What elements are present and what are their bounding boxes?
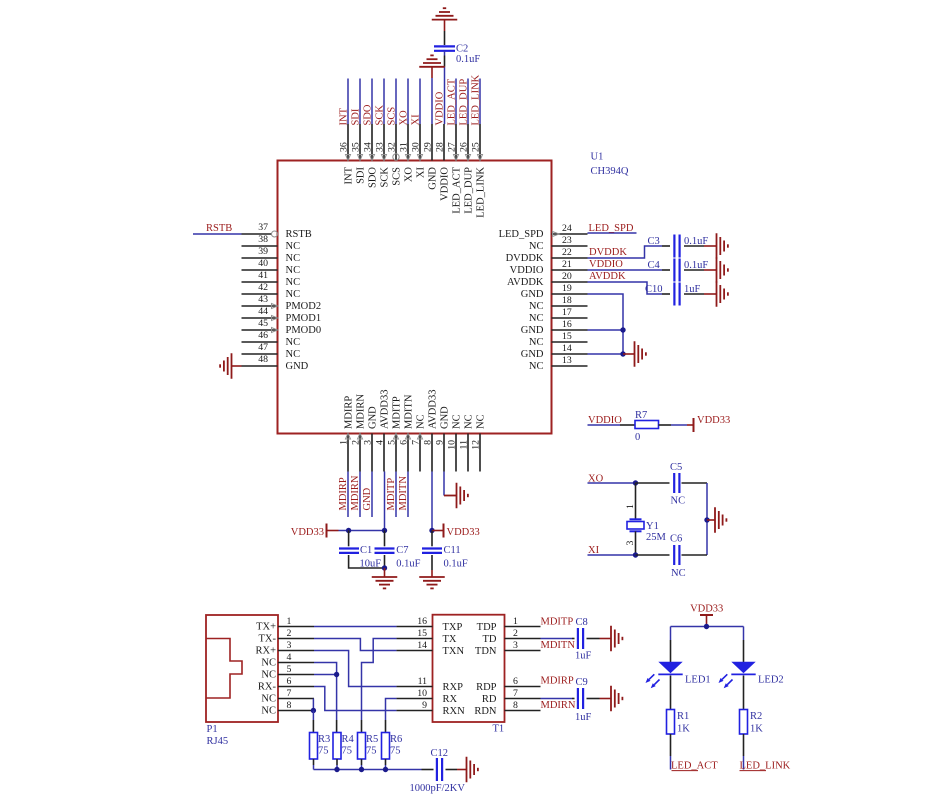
svg-text:SDI: SDI: [351, 108, 362, 125]
wire rail to C12: [422, 769, 434, 771]
U1 pin 39 (NC) left: [242, 257, 278, 259]
svg-text:75: 75: [342, 746, 353, 757]
U1 pin 32 (SCS) top: [395, 124, 397, 161]
wire TX center tap to R5: [362, 639, 397, 721]
svg-text:3: 3: [625, 541, 636, 546]
svg-text:XO: XO: [399, 110, 410, 126]
U1 pin 19 (GND) right: [552, 293, 588, 295]
svg-text:RXN: RXN: [443, 706, 466, 717]
svg-text:17: 17: [562, 307, 572, 318]
U1 pin 38 (NC) left: [242, 245, 278, 247]
wire net SDI (pin 35): [359, 79, 361, 125]
svg-text:31: 31: [399, 142, 410, 152]
wire net XI (pin 30): [419, 79, 421, 125]
P1 pin 2 (TX-): [278, 638, 314, 640]
svg-text:LED_LINK: LED_LINK: [471, 74, 482, 125]
svg-text:INT: INT: [339, 107, 350, 125]
U1 pin 48 (GND) left: [242, 365, 278, 367]
crystal Y1 pin 3 lead: [635, 531, 637, 555]
svg-text:MDIRP: MDIRP: [344, 396, 355, 429]
svg-text:INT: INT: [344, 166, 355, 184]
svg-text:29: 29: [423, 142, 434, 152]
wire net RSTB: [193, 233, 242, 235]
svg-text:NC: NC: [671, 568, 686, 579]
svg-text:27: 27: [447, 142, 458, 152]
wire pin 9 GND to ground: [443, 472, 445, 496]
junction C1/VDD33: [346, 528, 351, 533]
svg-text:C6: C6: [670, 534, 682, 545]
wire C10 to ground: [684, 293, 704, 295]
svg-text:RXP: RXP: [443, 682, 464, 693]
svg-text:DVDDK: DVDDK: [506, 253, 544, 264]
svg-text:NC: NC: [529, 313, 544, 324]
svg-text:1: 1: [625, 504, 636, 509]
power symbol VDD33 (R7): [693, 418, 695, 432]
svg-text:1: 1: [513, 616, 518, 627]
svg-text:R5: R5: [366, 734, 378, 745]
svg-text:7: 7: [411, 440, 422, 445]
svg-text:NC: NC: [529, 361, 544, 372]
U1 pin 42 (NC) left: [242, 293, 278, 295]
ground (pin 9): [457, 483, 468, 509]
svg-text:LED_DUP: LED_DUP: [459, 79, 470, 126]
ground (C8): [611, 626, 622, 652]
svg-text:75: 75: [366, 746, 377, 757]
capacitor C7: [384, 531, 386, 547]
svg-text:46: 46: [258, 330, 268, 341]
junction rail R5: [359, 767, 364, 772]
svg-text:MDIRP: MDIRP: [338, 477, 349, 510]
U1 pin 7 (NC) bottom: [419, 434, 421, 472]
svg-text:RSTB: RSTB: [206, 223, 232, 234]
svg-text:P1: P1: [207, 724, 218, 735]
T1 pin 11 (RXP): [396, 686, 432, 688]
svg-text:GND: GND: [440, 406, 451, 429]
U1 pin 25 (LED_LINK) top: [479, 124, 481, 161]
U1 pin 29 (GND) top: [431, 124, 433, 161]
svg-text:1: 1: [339, 440, 350, 445]
svg-text:NC: NC: [286, 337, 301, 348]
wire R1 down: [670, 734, 672, 756]
T1 pin 14 (TXN): [396, 650, 432, 652]
P1 pin 1 (TX+): [278, 626, 314, 628]
T1 pin 2 (TD): [505, 638, 541, 640]
svg-text:1: 1: [287, 616, 292, 627]
svg-text:U1: U1: [591, 152, 604, 163]
capacitor C11: [431, 531, 433, 547]
svg-text:23: 23: [562, 235, 572, 246]
wire to ground C7: [384, 568, 386, 577]
wire C8 to ground: [587, 638, 600, 640]
svg-text:VDDIO: VDDIO: [589, 259, 623, 270]
svg-text:3: 3: [513, 640, 518, 651]
junction C7/C1 ground: [382, 565, 387, 570]
power symbol VDD33 (right): [443, 524, 445, 538]
svg-text:20: 20: [562, 271, 572, 282]
wire net INT (pin 36): [347, 79, 349, 125]
wire net MDIRN (pin 2): [359, 472, 361, 518]
svg-text:RSTB: RSTB: [286, 229, 312, 240]
svg-text:37: 37: [258, 222, 268, 233]
svg-text:MDIRP: MDIRP: [541, 676, 574, 687]
svg-text:6: 6: [287, 676, 292, 687]
svg-text:VDD33: VDD33: [447, 527, 480, 538]
crystal Y1 pin 1 lead: [635, 483, 637, 519]
ground (C3): [717, 233, 728, 259]
resistor R7: [635, 421, 659, 429]
svg-text:TDN: TDN: [475, 646, 497, 657]
U1 pin 46 (NC) left: [242, 341, 278, 343]
junction pin8/C11: [429, 528, 434, 533]
svg-text:6: 6: [399, 440, 410, 445]
svg-text:12: 12: [471, 440, 482, 450]
U1 pin 4 (AVDD33) bottom: [383, 434, 385, 472]
U1 pin 1 (MDIRP) bottom: [347, 434, 349, 472]
svg-text:75: 75: [390, 746, 401, 757]
wire C3 to ground: [684, 245, 704, 247]
ground (crystal): [715, 507, 726, 533]
svg-text:42: 42: [258, 282, 268, 293]
svg-text:75: 75: [318, 746, 329, 757]
resistor R3: [310, 733, 318, 760]
svg-text:VDDIO: VDDIO: [510, 265, 544, 276]
svg-text:18: 18: [562, 295, 572, 306]
resistor R1: [667, 710, 675, 735]
svg-text:5: 5: [287, 664, 292, 675]
svg-text:11: 11: [459, 440, 470, 450]
U1 pin 18 (NC) right: [552, 305, 588, 307]
svg-text:SCK: SCK: [380, 167, 391, 188]
junction crystal ground: [704, 517, 709, 522]
wire C11 to ground: [431, 555, 433, 570]
svg-text:LED_ACT: LED_ACT: [452, 166, 463, 213]
svg-text:7: 7: [287, 688, 292, 699]
svg-text:NC: NC: [261, 670, 276, 681]
P1 pin 3 (RX+): [278, 650, 314, 652]
svg-text:14: 14: [562, 343, 572, 354]
svg-text:38: 38: [258, 234, 268, 245]
wire pin 4 AVDD33 to VDD33 rail: [384, 472, 386, 531]
svg-text:AVDD33: AVDD33: [428, 390, 439, 429]
svg-text:R7: R7: [635, 410, 647, 421]
svg-text:C7: C7: [396, 545, 408, 556]
svg-text:AVDDK: AVDDK: [507, 277, 544, 288]
resistor R5: [358, 733, 366, 760]
wire C1 bottom to junction: [349, 555, 385, 568]
svg-text:GND: GND: [362, 487, 373, 510]
svg-text:25M: 25M: [646, 532, 667, 543]
svg-text:NC: NC: [261, 658, 276, 669]
svg-text:AVDDK: AVDDK: [589, 271, 626, 282]
wire net MDITN (pin 6): [407, 472, 409, 518]
svg-text:MDIRN: MDIRN: [541, 700, 576, 711]
svg-text:C8: C8: [576, 617, 588, 628]
svg-text:6: 6: [513, 676, 518, 687]
T1 pin 7 (RD): [505, 698, 541, 700]
svg-text:LED_ACT: LED_ACT: [447, 78, 458, 125]
svg-text:28: 28: [435, 142, 446, 152]
svg-text:C1: C1: [360, 545, 372, 556]
wire R5 to rail: [361, 759, 363, 765]
svg-text:NC: NC: [529, 241, 544, 252]
svg-text:16: 16: [417, 616, 427, 627]
wire VDD33 rail: [327, 530, 339, 532]
T1 pin 1 (TDP): [505, 626, 541, 628]
resistor R6: [382, 733, 390, 760]
svg-text:43: 43: [258, 294, 268, 305]
svg-text:TX: TX: [443, 634, 457, 645]
U1 pin 3 (GND) bottom: [371, 434, 373, 472]
ground (C4): [717, 257, 728, 283]
svg-text:4: 4: [287, 652, 292, 663]
T1 pin 3 (TDN): [505, 650, 541, 652]
svg-text:35: 35: [351, 142, 362, 152]
svg-text:VDD33: VDD33: [291, 527, 324, 538]
svg-text:15: 15: [562, 331, 572, 342]
svg-text:MDITN: MDITN: [398, 476, 409, 511]
svg-text:16: 16: [562, 319, 572, 330]
LED1 light arrows: [646, 674, 660, 688]
svg-text:PMOD2: PMOD2: [286, 301, 322, 312]
svg-text:SCK: SCK: [375, 105, 386, 126]
U1 pin 40 (NC) left: [242, 269, 278, 271]
svg-text:NC: NC: [261, 706, 276, 717]
svg-text:VDD33: VDD33: [690, 604, 723, 615]
wire net LED_LINK (pin 25): [479, 79, 481, 125]
svg-text:19: 19: [562, 283, 572, 294]
wire net LED_DUP (pin 26): [467, 79, 469, 125]
U1 pin 16 (GND) right: [552, 329, 588, 331]
svg-text:10: 10: [417, 688, 427, 699]
svg-text:39: 39: [258, 246, 268, 257]
svg-text:34: 34: [363, 142, 374, 152]
junction pin14 GND: [620, 351, 625, 356]
junction LED rail: [704, 624, 709, 629]
svg-text:SDI: SDI: [356, 166, 367, 183]
U1 pin 35 (SDI) top: [359, 124, 361, 161]
LED2 light arrows: [719, 674, 733, 688]
svg-text:MDITP: MDITP: [386, 478, 397, 511]
svg-text:DVDDK: DVDDK: [589, 247, 627, 258]
svg-text:1K: 1K: [750, 724, 763, 735]
svg-text:T1: T1: [493, 724, 505, 735]
wire R7 to VDD33: [659, 424, 672, 426]
wire TD to C8: [541, 638, 573, 640]
svg-text:TD: TD: [483, 634, 497, 645]
svg-text:LED_LINK: LED_LINK: [476, 167, 487, 218]
wire C5 to vertical: [682, 482, 708, 484]
svg-text:MDIRN: MDIRN: [356, 394, 367, 429]
U1 pin 33 (SCK) top: [383, 124, 385, 161]
svg-text:MDITN: MDITN: [404, 394, 415, 429]
svg-text:NC: NC: [671, 496, 686, 507]
svg-text:13: 13: [562, 355, 572, 366]
svg-text:NC: NC: [476, 414, 487, 429]
svg-text:RX-: RX-: [258, 682, 277, 693]
resistor R4: [333, 733, 341, 760]
ground (C10): [717, 281, 728, 307]
wire P1 pin7 to R3 net: [312, 699, 314, 711]
capacitor C12: [437, 758, 442, 781]
wire RX+ to RXP: [314, 651, 396, 687]
svg-text:XI: XI: [416, 167, 427, 179]
capacitor C3: [674, 235, 679, 258]
svg-text:9: 9: [422, 700, 427, 711]
U1 pin 44 (PMOD1) left: [242, 317, 278, 319]
svg-text:VDD33: VDD33: [697, 415, 730, 426]
wire net GND (pin 3): [371, 472, 373, 518]
svg-text:RD: RD: [482, 694, 497, 705]
crystal Y1: [627, 519, 644, 531]
wire TX+ to TXP: [314, 626, 396, 628]
wire net MDITP (pin 5): [395, 472, 397, 518]
junction pin4/C7: [382, 528, 387, 533]
wire C6 to vertical: [682, 554, 708, 556]
T1 pin 8 (RDN): [505, 710, 541, 712]
wire P1 pin5 to R4 net: [314, 674, 337, 676]
svg-text:PMOD1: PMOD1: [286, 313, 322, 324]
svg-text:XO: XO: [404, 167, 415, 183]
svg-text:TX+: TX+: [256, 622, 276, 633]
svg-text:NC: NC: [529, 337, 544, 348]
junction pin16 GND: [620, 327, 625, 332]
svg-text:40: 40: [258, 258, 268, 269]
LED LED2: [731, 662, 755, 675]
junction rail R4: [334, 767, 339, 772]
svg-text:NC: NC: [286, 265, 301, 276]
svg-text:0: 0: [635, 432, 640, 443]
P1 pin 7 (NC): [278, 698, 314, 700]
U1 pin 36 (INT) top: [347, 124, 349, 161]
wire R2 down: [743, 734, 745, 756]
svg-text:33: 33: [375, 142, 386, 152]
svg-text:MDITN: MDITN: [541, 640, 576, 651]
svg-text:3: 3: [287, 640, 292, 651]
wire to ground pin14: [623, 353, 635, 355]
U1 pin 15 (NC) right: [552, 341, 588, 343]
P1 jack notch: [206, 639, 242, 699]
svg-text:LED_DUP: LED_DUP: [464, 167, 475, 214]
svg-text:RX: RX: [443, 694, 458, 705]
U1 pin 5 (MDITP) bottom: [395, 434, 397, 472]
svg-text:22: 22: [562, 247, 572, 258]
power symbol VDD33 (left): [326, 524, 328, 538]
junction XO: [633, 480, 638, 485]
T1 pin 6 (RDP): [505, 686, 541, 688]
svg-text:R6: R6: [390, 734, 402, 745]
svg-text:4: 4: [375, 440, 386, 445]
wire P1 pin4 to R4 net: [314, 663, 337, 721]
U1 pin 8 (AVDD33) bottom: [431, 434, 433, 472]
svg-text:LED_ACT: LED_ACT: [671, 761, 718, 772]
svg-text:XI: XI: [411, 114, 422, 126]
wire GND pins 19/16/14: [588, 294, 624, 354]
svg-text:MDITP: MDITP: [392, 396, 403, 429]
U1 pin 47 (NC) left: [242, 353, 278, 355]
svg-text:GND: GND: [368, 406, 379, 429]
svg-text:15: 15: [417, 628, 427, 639]
svg-text:MDIRN: MDIRN: [350, 475, 361, 510]
svg-text:C9: C9: [576, 677, 588, 688]
capacitor C6: [674, 545, 679, 565]
wire C9 to ground: [587, 698, 600, 700]
svg-text:RDP: RDP: [476, 682, 497, 693]
svg-text:R1: R1: [677, 711, 689, 722]
wire ground stem pin48: [232, 365, 242, 367]
U1 pin 28 (VDDIO) top: [443, 124, 445, 161]
svg-text:8: 8: [423, 440, 434, 445]
ground (C9): [611, 686, 622, 712]
wire RX- to RXN: [314, 687, 396, 711]
svg-text:NC: NC: [416, 414, 427, 429]
U1 pin 24 (LED_SPD) right: [552, 233, 588, 235]
svg-text:LED1: LED1: [685, 675, 711, 686]
svg-text:TX-: TX-: [259, 634, 277, 645]
svg-text:LED_SPD: LED_SPD: [499, 229, 544, 240]
wire rail to LED2: [743, 627, 745, 641]
svg-text:2: 2: [513, 628, 518, 639]
wire net MDIRP (pin 1): [347, 472, 349, 518]
wire R6 to rail: [385, 759, 387, 765]
wire RX center tap to R6: [386, 699, 397, 721]
wire XO: [588, 482, 636, 484]
U1 pin 27 (LED_ACT) top: [455, 124, 457, 161]
svg-text:C2: C2: [456, 44, 468, 55]
wire net to ground above C2: [444, 31, 446, 45]
wire DVDDK to C3: [588, 246, 663, 258]
svg-text:LED2: LED2: [758, 675, 784, 686]
wire VDDIO to R7: [588, 424, 621, 426]
svg-text:36: 36: [339, 142, 350, 152]
wire AVDDK to C10: [588, 282, 663, 294]
U1 pin 31 (XO) top: [407, 124, 409, 161]
wire XI: [588, 554, 636, 556]
ground (pin 29 GND net): [419, 55, 445, 66]
svg-text:RX+: RX+: [255, 646, 276, 657]
svg-text:SDO: SDO: [363, 104, 374, 125]
svg-text:SCS: SCS: [387, 107, 398, 126]
svg-text:C10: C10: [645, 284, 663, 295]
capacitor C5: [674, 473, 679, 493]
wire XI to C6: [636, 554, 670, 556]
wire C12 to ground: [446, 769, 458, 771]
wire net SCS (pin 32): [395, 79, 397, 125]
U1 pin 41 (NC) left: [242, 281, 278, 283]
wire net LED_SPD: [588, 232, 637, 234]
svg-text:9: 9: [435, 440, 446, 445]
svg-text:SCS: SCS: [392, 167, 403, 186]
capacitor C4: [674, 259, 679, 282]
wire LED1 to R1: [670, 676, 672, 710]
svg-text:NC: NC: [286, 253, 301, 264]
T1 pin 10 (RX): [396, 698, 432, 700]
ground (C12): [467, 757, 478, 783]
svg-text:Y1: Y1: [646, 521, 659, 532]
svg-text:RDN: RDN: [474, 706, 497, 717]
wire R3 net down: [312, 711, 314, 721]
svg-text:NC: NC: [261, 694, 276, 705]
wire LED2 to R2: [743, 676, 745, 710]
wire LED supply rail: [671, 626, 744, 628]
svg-text:NC: NC: [286, 289, 301, 300]
wire net SCK (pin 33): [383, 79, 385, 125]
wire pin 8 AVDD33 to VDD33: [431, 472, 433, 531]
U1 pin 22 (DVDDK) right: [552, 257, 588, 259]
ground (C11): [419, 577, 445, 588]
svg-text:VDDIO: VDDIO: [440, 167, 451, 201]
U1 pin 10 (NC) bottom: [455, 434, 457, 472]
svg-text:GND: GND: [428, 167, 439, 190]
